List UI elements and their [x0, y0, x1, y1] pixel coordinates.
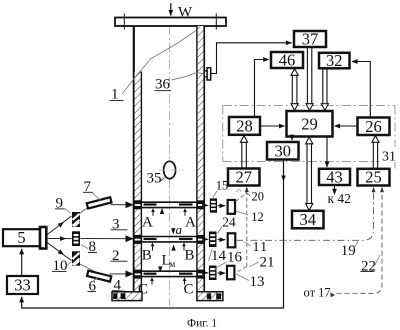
box 26: [358, 118, 390, 136]
svg-text:20: 20: [252, 190, 265, 204]
box 43: [319, 169, 350, 185]
mirror 6: [87, 271, 111, 282]
double wire 25-26: [372, 136, 379, 169]
wire 33 to 5: [21, 249, 23, 276]
svg-text:C: C: [184, 282, 194, 298]
bottom flange right foot: [197, 292, 223, 301]
double wire 32-29: [321, 68, 328, 110]
dashed boundary box 31: [223, 106, 395, 169]
wire 26 to 29: [335, 125, 358, 127]
ray to mirror 9: [47, 222, 64, 235]
mirror 9: [72, 212, 80, 227]
svg-text:26: 26: [365, 117, 382, 136]
dashed wire 11/19 to 25: [236, 191, 374, 241]
column shell 1 : left wall: [133, 26, 135, 292]
wire 28 to 29: [260, 125, 285, 127]
detector 11: [228, 233, 236, 247]
svg-text:30: 30: [275, 141, 292, 160]
svg-text:29: 29: [301, 115, 318, 134]
tray A: [134, 200, 205, 230]
column centerline: [169, 26, 171, 306]
svg-text:от 17: от 17: [304, 285, 331, 299]
wire 28 to 46: [255, 60, 269, 118]
wire 26 to 32: [352, 62, 370, 118]
svg-text:а: а: [176, 222, 183, 237]
beam 6 into column level C: [110, 273, 133, 275]
ray to mirror 10: [47, 242, 64, 255]
box 30: [267, 142, 299, 160]
wire nozzle to box 37: [211, 43, 292, 74]
svg-text:A: A: [142, 215, 153, 231]
double wire 46-29 (both arrows): [291, 69, 298, 111]
svg-text:24: 24: [222, 215, 236, 230]
detector row C : collimator 16: [205, 272, 229, 274]
svg-text:13: 13: [250, 274, 265, 290]
svg-text:33: 33: [14, 275, 31, 294]
svg-text:B: B: [142, 248, 152, 264]
svg-text:31: 31: [382, 149, 396, 164]
svg-text:22: 22: [361, 258, 376, 274]
radiation source 5: [3, 229, 40, 246]
beam 9 to mirror 7: [80, 207, 90, 214]
box 34: [292, 211, 324, 229]
detector 12: [228, 200, 235, 214]
svg-text:46: 46: [279, 51, 296, 70]
feedback wire 30 to 33: [22, 160, 284, 308]
svg-text:м: м: [170, 259, 176, 269]
double wire 29-34 (both arrows): [306, 137, 313, 210]
beam 10 to mirror 6: [80, 264, 95, 272]
svg-text:Фиг. 1: Фиг. 1: [187, 318, 217, 330]
dashed wire detectors to 27: [236, 193, 247, 202]
svg-text:28: 28: [236, 117, 253, 136]
mirror 10: [72, 251, 80, 265]
mirror 7: [87, 197, 112, 208]
svg-text:35: 35: [147, 171, 162, 187]
double wire 27-28: [240, 136, 247, 169]
svg-text:к 42: к 42: [328, 191, 351, 206]
detector 13: [227, 266, 234, 280]
wire 43 to 42: [334, 185, 336, 194]
svg-text:5: 5: [17, 228, 25, 247]
box 46: [271, 52, 303, 68]
detector row B : collimator 14: [205, 239, 229, 241]
column shell 1 : right wall: [203, 26, 205, 292]
nozzle 36: [204, 71, 207, 77]
oval 35: [164, 161, 176, 178]
top flange: [115, 18, 226, 27]
svg-text:32: 32: [326, 51, 343, 70]
svg-text:B: B: [185, 248, 195, 264]
power unit 33: [7, 276, 38, 294]
svg-text:11: 11: [253, 240, 269, 255]
dimension a between tray A and B: [161, 210, 163, 214]
double wire 37-29: [306, 47, 313, 110]
svg-text:19: 19: [341, 243, 356, 259]
svg-text:14: 14: [211, 248, 227, 264]
beam 7 into column level A: [111, 204, 133, 206]
svg-text:21: 21: [260, 254, 275, 270]
wire 29 to 43: [326, 137, 328, 168]
svg-text:A: A: [185, 215, 196, 231]
source window: [40, 227, 46, 249]
tray C: [134, 270, 205, 298]
box 37: [294, 31, 326, 47]
tray B: [134, 235, 205, 264]
svg-text:1: 1: [111, 87, 119, 103]
box 25: [358, 169, 390, 186]
box 32: [319, 53, 350, 69]
svg-text:12: 12: [251, 210, 263, 224]
grating 8: [72, 231, 80, 246]
box 27: [228, 169, 260, 186]
svg-text:36: 36: [155, 77, 171, 93]
svg-text:27: 27: [236, 168, 253, 187]
svg-text:34: 34: [300, 210, 317, 229]
box 29: [287, 111, 333, 137]
ray to grating 8: [47, 238, 66, 240]
svg-text:25: 25: [365, 168, 382, 187]
W feed arrow: [170, 3, 172, 16]
wire 29 to 30: [291, 137, 293, 141]
svg-text:37: 37: [302, 30, 319, 49]
svg-text:16: 16: [227, 249, 243, 265]
detector row A : collimator 15: [205, 205, 229, 207]
bottom flange left foot: [112, 292, 142, 301]
dimension L between tray B and C: [173, 247, 175, 251]
svg-text:15: 15: [216, 179, 229, 193]
box 28: [229, 117, 260, 135]
beam 8 into column level B: [81, 238, 133, 240]
svg-text:43: 43: [326, 167, 343, 186]
